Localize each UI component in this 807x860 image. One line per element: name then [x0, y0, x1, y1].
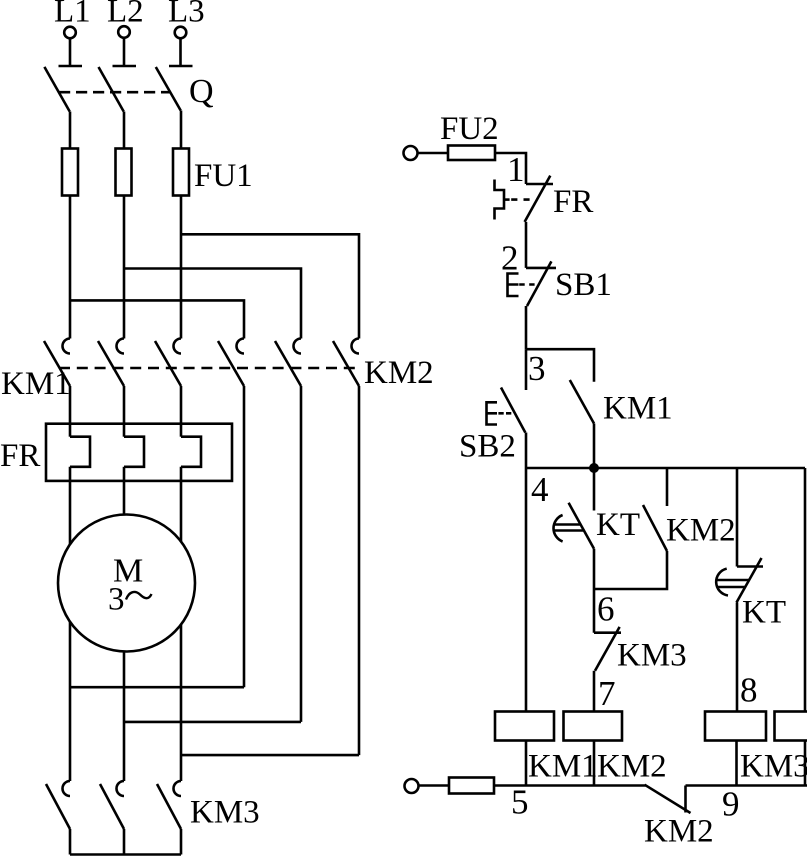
contactor KM2 main contact pole 2: [275, 339, 301, 387]
switch Q pole 3: [156, 66, 193, 111]
svg-text:KM2: KM2: [597, 749, 667, 785]
wire KM1 aux to node 4: [593, 424, 596, 469]
wire coil bottoms to bottom bus: [526, 741, 805, 786]
wire terminal to bottom fuse: [419, 784, 450, 787]
svg-text:FR: FR: [0, 438, 40, 474]
wire node4 bus to coil 4 (right edge): [804, 468, 807, 712]
wire SB2 to node 4: [525, 433, 528, 469]
wire KT NC to KM3 coil: [736, 603, 739, 712]
wire terminal to FU2: [418, 152, 449, 155]
wire SB1 to node 3: [525, 306, 528, 349]
contactor KM1 auxiliary NO contact: [570, 380, 594, 424]
contactor KM1 main contact pole 3: [155, 339, 181, 387]
svg-text:6: 6: [597, 590, 615, 629]
contactor KM2 main contact pole 3: [333, 339, 359, 387]
svg-text:KM1: KM1: [528, 749, 598, 785]
contactor KM2 main contact pole 1: [218, 339, 244, 387]
terminal L1: [54, 0, 91, 66]
pushbutton SB1 (stop, NC): [508, 261, 557, 306]
svg-text:4: 4: [531, 470, 549, 509]
svg-text:9: 9: [722, 785, 740, 824]
wire fuse outputs down to KM1 contacts: [70, 196, 181, 339]
switch Q pole 2: [99, 66, 137, 112]
pushbutton SB2 (start, NO): [487, 349, 527, 432]
wire motor lead 1 down: [69, 622, 72, 781]
wire FR outputs to motor: [70, 467, 181, 545]
time relay KT NC contact (delayed opening): [716, 468, 763, 603]
svg-text:7: 7: [598, 674, 616, 713]
fuse FU1 pole 2: [116, 149, 132, 196]
coil KM3: [705, 712, 766, 741]
switch Q pole 1: [44, 66, 82, 112]
svg-text:L1: L1: [54, 0, 91, 30]
contactor KM3 main contact pole 3: [157, 781, 181, 855]
terminal (control bottom): [405, 779, 419, 793]
wire node 3 branch to KM1 aux: [526, 349, 594, 382]
contactor KM2 NC interlock contact: [645, 785, 691, 813]
svg-text:8: 8: [740, 671, 758, 710]
wire feeder branch L1 to KM2 pole 1: [70, 300, 244, 338]
wire delta link 1 (motor lead 1 to KM2 pole 1): [70, 686, 244, 689]
svg-text:5: 5: [511, 783, 529, 822]
wire FR to SB1: [525, 222, 528, 268]
wire delta link 3 (motor lead 3 to KM2 pole 3): [181, 754, 359, 757]
terminal L3: [168, 0, 205, 66]
wire feeder branch L3 to KM2 pole 3: [181, 234, 359, 338]
coil KM1: [495, 712, 554, 741]
svg-text:FR: FR: [553, 184, 593, 220]
wire node4 to KM1 coil: [525, 468, 528, 712]
svg-text:KM2: KM2: [666, 513, 736, 549]
wire KM3 NC to KM2 coil: [593, 671, 596, 712]
KM1-KM2 linkage (dashed): [59, 367, 356, 370]
relay FR NC contact (control): [495, 176, 554, 222]
coil KM2: [564, 712, 623, 741]
svg-text:1: 1: [507, 150, 525, 189]
contactor KM2 auxiliary NO contact: [594, 468, 667, 589]
fuse (control bottom): [449, 778, 494, 794]
junction node 4: [589, 463, 599, 473]
svg-text:KM1: KM1: [1, 366, 71, 402]
svg-text:FU2: FU2: [440, 111, 499, 147]
wire Q to fuses: [70, 111, 181, 149]
wire star point bus: [70, 853, 181, 856]
svg-text:KM3: KM3: [740, 749, 807, 785]
wire FU2 to FR contact: [495, 153, 526, 184]
switch Q linkage (dashed): [59, 91, 171, 94]
svg-text:KM1: KM1: [603, 391, 673, 427]
wire motor lead 3 down: [180, 625, 183, 782]
svg-text:SB2: SB2: [459, 429, 516, 465]
svg-text:FU1: FU1: [194, 158, 253, 194]
thermal overload relay FR (heater box): [46, 424, 232, 481]
wire feeder branch L2 to KM2 pole 2: [124, 269, 301, 339]
svg-text:3: 3: [108, 582, 125, 618]
svg-text:L2: L2: [107, 0, 144, 30]
contactor KM3 main contact pole 2: [100, 781, 124, 855]
svg-text:KT: KT: [596, 507, 640, 543]
svg-text:KM3: KM3: [190, 795, 260, 831]
svg-text:Q: Q: [189, 73, 214, 110]
wire KM1 outputs into FR: [70, 386, 181, 437]
terminal (control top): [404, 146, 418, 160]
fuse FU1 pole 3: [173, 149, 189, 196]
coil KT (clipped at right edge): [775, 712, 807, 741]
wire KM2 pole outputs down: [244, 386, 359, 755]
contactor KM1 main contact pole 2: [98, 339, 124, 387]
wire motor lead 2 down: [123, 652, 126, 782]
wire bottom bus left section: [494, 784, 646, 787]
svg-text:3: 3: [528, 349, 546, 388]
svg-text:2: 2: [501, 239, 519, 278]
fuse FU2: [448, 146, 495, 161]
contactor KM1 main contact pole 1: [44, 339, 70, 387]
wire bottom bus right section: [686, 784, 807, 787]
svg-text:L3: L3: [168, 0, 205, 30]
time relay KT NO contact (delayed closing): [554, 468, 594, 549]
svg-text:KT: KT: [742, 595, 786, 631]
terminal L2: [107, 0, 144, 66]
fuse FU1 pole 1: [62, 149, 78, 196]
wire delta link 2 (motor lead 2 to KM2 pole 2): [124, 721, 301, 724]
wire KT contact down to node 6 and KM3 NC: [593, 549, 596, 633]
svg-text:KM2: KM2: [644, 814, 714, 850]
contactor KM3 main contact pole 1: [46, 781, 70, 855]
svg-text:KM3: KM3: [617, 638, 687, 674]
node 4 bus: [526, 467, 805, 470]
motor M 3~: [58, 515, 195, 652]
svg-text:KM2: KM2: [364, 355, 434, 391]
contactor KM3 auxiliary NC contact: [594, 627, 621, 671]
svg-text:SB1: SB1: [555, 267, 612, 303]
